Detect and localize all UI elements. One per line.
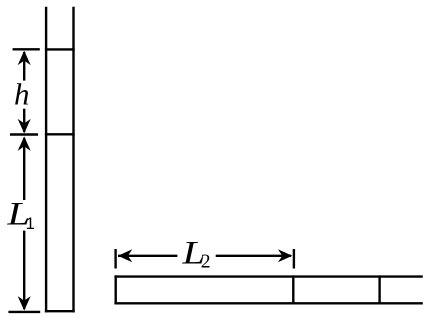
- svg-text:h: h: [14, 77, 30, 112]
- svg-text:2: 2: [201, 251, 211, 273]
- svg-text:1: 1: [26, 215, 35, 233]
